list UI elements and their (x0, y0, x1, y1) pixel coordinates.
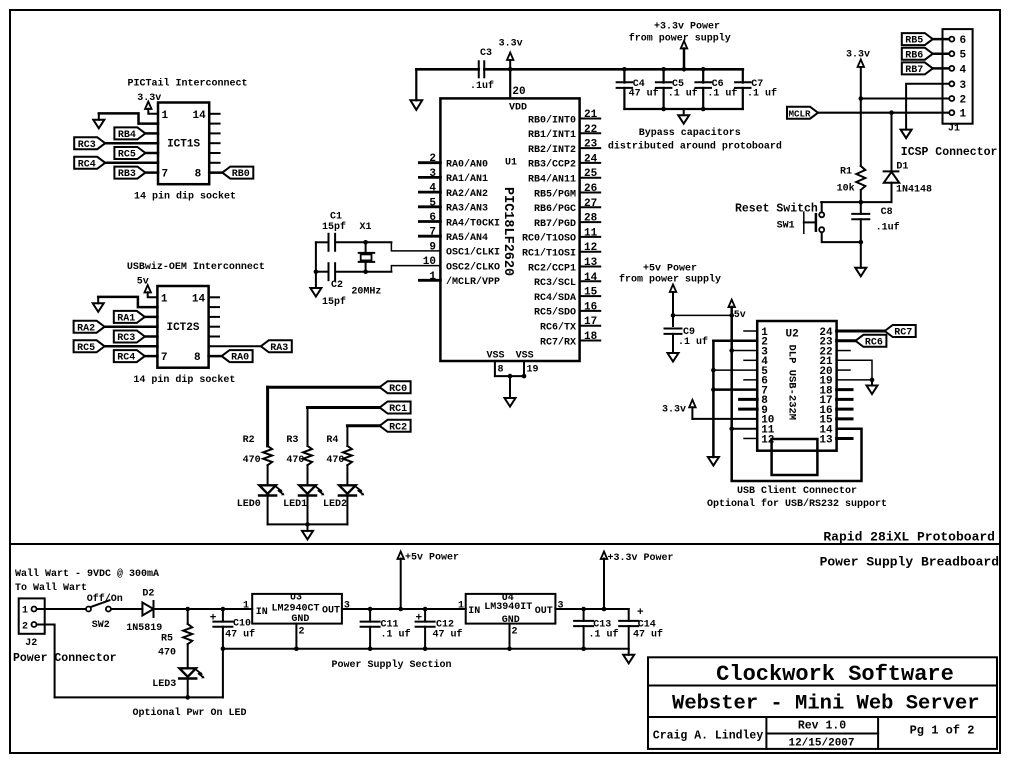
svg-text:To Wall Wart: To Wall Wart (15, 582, 87, 594)
svg-text:7: 7 (161, 352, 168, 364)
svg-text:RB0/INT0: RB0/INT0 (528, 114, 576, 126)
svg-text:USB Client Connector: USB Client Connector (737, 485, 857, 497)
svg-text:RA0/AN0: RA0/AN0 (446, 159, 488, 171)
svg-text:10k: 10k (837, 183, 855, 195)
svg-text:RB1/INT1: RB1/INT1 (528, 129, 576, 141)
svg-text:D1: D1 (896, 162, 908, 173)
svg-text:PICTail Interconnect: PICTail Interconnect (128, 78, 248, 90)
svg-text:21: 21 (584, 109, 598, 121)
svg-text:20MHz: 20MHz (351, 287, 381, 298)
svg-text:12/15/2007: 12/15/2007 (788, 738, 854, 750)
svg-text:13: 13 (819, 434, 833, 446)
svg-text:RC5/SDO: RC5/SDO (534, 307, 576, 319)
svg-text:2: 2 (960, 95, 967, 107)
svg-text:25: 25 (584, 168, 598, 180)
svg-text:J2: J2 (25, 638, 37, 649)
svg-text:R5: R5 (161, 634, 173, 645)
svg-text:3: 3 (960, 80, 967, 92)
svg-text:LED2: LED2 (323, 499, 347, 510)
svg-text:.1uf: .1uf (876, 222, 900, 234)
svg-text:IN: IN (468, 606, 480, 617)
svg-text:Optional Pwr On LED: Optional Pwr On LED (133, 707, 247, 719)
svg-text:1: 1 (161, 293, 168, 305)
svg-text:6: 6 (429, 212, 436, 224)
svg-text:RB5: RB5 (905, 36, 923, 47)
svg-text:+3.3v Power: +3.3v Power (654, 22, 720, 33)
svg-text:RB7: RB7 (905, 65, 923, 76)
svg-text:RC6: RC6 (865, 337, 883, 348)
svg-text:RB3: RB3 (118, 169, 136, 180)
svg-text:47 uf: 47 uf (433, 629, 463, 641)
svg-text:Off/On: Off/On (87, 593, 123, 605)
svg-text:from power supply: from power supply (629, 33, 731, 45)
svg-text:USBwiz-OEM Interconnect: USBwiz-OEM Interconnect (127, 261, 265, 273)
svg-text:24: 24 (584, 153, 598, 165)
svg-text:14 pin dip socket: 14 pin dip socket (133, 374, 235, 386)
svg-text:+5v Power: +5v Power (643, 264, 697, 275)
svg-text:Power Supply Section: Power Supply Section (332, 659, 452, 671)
svg-text:.1 uf: .1 uf (381, 629, 411, 641)
svg-text:ICT2S: ICT2S (166, 322, 199, 334)
svg-text:14: 14 (192, 293, 206, 305)
svg-text:4: 4 (960, 64, 967, 76)
svg-text:LED1: LED1 (283, 499, 307, 510)
svg-text:18: 18 (584, 331, 598, 343)
svg-text:RC7/RX: RC7/RX (540, 336, 576, 348)
svg-text:.1 uf: .1 uf (589, 629, 619, 641)
svg-text:6: 6 (960, 35, 967, 47)
svg-text:.1uf: .1uf (470, 80, 494, 92)
svg-text:RB4: RB4 (118, 130, 136, 141)
svg-text:470: 470 (158, 648, 176, 659)
svg-text:17: 17 (584, 316, 597, 328)
svg-text:GND: GND (291, 614, 309, 625)
svg-text:16: 16 (584, 301, 597, 313)
svg-text:RC4: RC4 (78, 159, 96, 170)
svg-text:3.3v: 3.3v (846, 50, 870, 61)
svg-text:RC3/SCL: RC3/SCL (534, 277, 576, 289)
svg-text:1: 1 (458, 600, 464, 611)
svg-text:470: 470 (286, 455, 304, 466)
svg-text:470: 470 (326, 455, 344, 466)
svg-text:C3: C3 (480, 48, 492, 59)
svg-text:RB0: RB0 (232, 169, 250, 180)
svg-text:3.3v: 3.3v (499, 39, 523, 50)
svg-text:C2: C2 (331, 280, 343, 291)
svg-text:23: 23 (584, 139, 598, 151)
svg-text:+: + (210, 612, 217, 624)
svg-text:4: 4 (429, 183, 436, 195)
svg-text:RA2/AN2: RA2/AN2 (446, 188, 488, 200)
svg-text:Pg 1 of 2: Pg 1 of 2 (910, 724, 975, 738)
svg-text:470: 470 (243, 455, 261, 466)
svg-text:2: 2 (299, 627, 305, 638)
svg-text:RC4/SDA: RC4/SDA (534, 292, 576, 304)
svg-text:15pf: 15pf (322, 296, 346, 308)
svg-text:C1: C1 (330, 212, 342, 223)
svg-text:Optional for USB/RS232 support: Optional for USB/RS232 support (707, 498, 887, 510)
svg-text:3: 3 (429, 168, 436, 180)
svg-text:2: 2 (22, 622, 28, 633)
svg-text:Clockwork Software: Clockwork Software (716, 662, 954, 687)
svg-text:RA3: RA3 (270, 343, 288, 354)
svg-text:C8: C8 (881, 207, 893, 218)
svg-text:RC3: RC3 (78, 140, 96, 151)
svg-text:Reset Switch: Reset Switch (735, 203, 818, 216)
svg-text:RA3/AN3: RA3/AN3 (446, 203, 488, 215)
svg-text:47 uf: 47 uf (225, 629, 255, 641)
svg-text:C10: C10 (233, 619, 251, 630)
svg-text:R3: R3 (286, 435, 298, 446)
svg-text:14 pin dip socket: 14 pin dip socket (134, 191, 236, 203)
svg-text:LED3: LED3 (152, 679, 176, 690)
svg-text:.1 uf: .1 uf (747, 88, 777, 100)
svg-text:R2: R2 (243, 435, 255, 446)
svg-text:1: 1 (22, 606, 28, 617)
svg-text:7: 7 (429, 227, 436, 239)
svg-text:5: 5 (429, 197, 436, 209)
svg-text:RA5/AN4: RA5/AN4 (446, 232, 488, 244)
svg-text:U1: U1 (505, 158, 517, 169)
svg-text:VDD: VDD (509, 103, 527, 114)
svg-text:+: + (637, 607, 644, 619)
svg-text:.1 uf: .1 uf (678, 336, 708, 348)
svg-text:+5v Power: +5v Power (405, 553, 459, 564)
svg-text:8: 8 (195, 169, 202, 181)
svg-text:2: 2 (429, 153, 436, 165)
svg-text:8: 8 (498, 365, 504, 376)
svg-text:LED0: LED0 (237, 499, 261, 510)
svg-text:GND: GND (502, 615, 520, 626)
svg-text:Rev 1.0: Rev 1.0 (798, 720, 846, 733)
svg-text:14: 14 (584, 272, 598, 284)
svg-text:/MCLR/VPP: /MCLR/VPP (446, 276, 500, 288)
svg-text:+3.3v Power: +3.3v Power (608, 553, 674, 564)
svg-text:2: 2 (512, 627, 518, 638)
svg-text:DLP USB-232M: DLP USB-232M (786, 345, 798, 421)
svg-text:ICSP Connector: ICSP Connector (901, 146, 998, 159)
svg-text:1: 1 (429, 271, 436, 283)
svg-text:PIC18LF2620: PIC18LF2620 (500, 187, 515, 276)
svg-text:RA1/AN1: RA1/AN1 (446, 173, 488, 185)
svg-text:U3: U3 (290, 593, 302, 604)
svg-text:Craig A. Lindley: Craig A. Lindley (653, 730, 764, 743)
svg-text:RA0: RA0 (231, 353, 249, 364)
svg-text:27: 27 (584, 198, 597, 210)
svg-text:1N5819: 1N5819 (126, 623, 162, 634)
svg-text:OUT: OUT (322, 606, 340, 617)
svg-text:Power Connector: Power Connector (13, 652, 117, 665)
svg-text:15: 15 (584, 287, 598, 299)
svg-text:RC7: RC7 (894, 328, 912, 339)
svg-text:28: 28 (584, 213, 598, 225)
svg-text:RB3/CCP2: RB3/CCP2 (528, 159, 576, 171)
svg-text:.1 uf: .1 uf (668, 88, 698, 100)
svg-text:1N4148: 1N4148 (896, 185, 932, 196)
svg-text:1: 1 (162, 110, 169, 122)
svg-text:Wall Wart - 9VDC @ 300mA: Wall Wart - 9VDC @ 300mA (15, 568, 159, 580)
svg-text:from power supply: from power supply (619, 274, 721, 286)
svg-text:1: 1 (243, 600, 249, 611)
svg-text:22: 22 (584, 124, 597, 136)
svg-text:20: 20 (512, 86, 525, 98)
svg-text:Webster - Mini Web Server: Webster - Mini Web Server (672, 693, 980, 716)
svg-text:.1 uf: .1 uf (707, 88, 737, 100)
svg-text:47 uf: 47 uf (633, 629, 663, 641)
svg-text:14: 14 (192, 110, 206, 122)
svg-text:12: 12 (584, 242, 597, 254)
svg-text:OUT: OUT (535, 606, 553, 617)
svg-text:RC6/TX: RC6/TX (540, 322, 576, 334)
svg-text:13: 13 (584, 257, 598, 269)
svg-text:R1: R1 (840, 167, 852, 178)
svg-text:RC2: RC2 (389, 422, 407, 433)
svg-text:RC3: RC3 (117, 333, 135, 344)
svg-text:RC5: RC5 (77, 343, 95, 354)
svg-text:J1: J1 (948, 124, 960, 135)
svg-text:RB4/AN11: RB4/AN11 (528, 174, 576, 186)
svg-text:ICT1S: ICT1S (167, 138, 200, 150)
svg-text:8: 8 (194, 352, 201, 364)
svg-text:RB6/PGC: RB6/PGC (534, 203, 576, 215)
svg-text:7: 7 (162, 169, 169, 181)
svg-text:5: 5 (960, 50, 967, 62)
svg-text:11: 11 (584, 227, 598, 239)
svg-text:RC1: RC1 (389, 404, 407, 415)
svg-text:RB5/PGM: RB5/PGM (534, 188, 576, 200)
svg-text:RC5: RC5 (118, 150, 136, 161)
svg-text:19: 19 (527, 365, 539, 376)
svg-text:Rapid 28iXL Protoboard: Rapid 28iXL Protoboard (823, 530, 995, 545)
svg-text:15pf: 15pf (322, 221, 346, 233)
svg-text:RC2/CCP1: RC2/CCP1 (528, 262, 576, 274)
svg-text:RA1: RA1 (117, 314, 135, 325)
svg-text:RB6: RB6 (905, 50, 923, 61)
svg-text:SW2: SW2 (92, 620, 110, 631)
svg-text:+: + (416, 612, 423, 624)
svg-text:RC0/T1OSO: RC0/T1OSO (522, 233, 576, 245)
svg-text:RA2: RA2 (77, 323, 95, 334)
svg-text:Power Supply Breadboard: Power Supply Breadboard (820, 555, 999, 570)
svg-text:RC0: RC0 (389, 384, 407, 395)
svg-text:MCLR: MCLR (788, 108, 811, 119)
svg-text:OSC2/CLKO: OSC2/CLKO (446, 261, 500, 273)
svg-text:Bypass capacitors: Bypass capacitors (639, 127, 741, 139)
svg-text:26: 26 (584, 183, 597, 195)
svg-text:RB2/INT2: RB2/INT2 (528, 144, 576, 156)
svg-text:U2: U2 (786, 329, 799, 341)
svg-text:47 uf: 47 uf (629, 88, 659, 100)
svg-text:LM3940IT: LM3940IT (484, 602, 532, 613)
svg-text:SW1: SW1 (777, 221, 795, 232)
svg-text:VSS: VSS (516, 350, 534, 361)
svg-text:IN: IN (256, 607, 268, 618)
svg-text:5v: 5v (734, 310, 746, 321)
svg-text:distributed around protoboard: distributed around protoboard (608, 141, 782, 153)
svg-text:RC4: RC4 (117, 353, 135, 364)
svg-text:X1: X1 (360, 222, 372, 233)
svg-text:1: 1 (960, 109, 967, 121)
svg-text:D2: D2 (142, 589, 154, 600)
svg-text:RC1/T1OSI: RC1/T1OSI (522, 248, 576, 260)
svg-text:R4: R4 (326, 435, 338, 446)
svg-text:OSC1/CLKI: OSC1/CLKI (446, 247, 500, 259)
svg-text:RB7/PGD: RB7/PGD (534, 218, 576, 230)
svg-text:RA4/T0CKI: RA4/T0CKI (446, 217, 500, 229)
svg-text:3.3v: 3.3v (662, 405, 686, 416)
svg-text:VSS: VSS (487, 350, 505, 361)
